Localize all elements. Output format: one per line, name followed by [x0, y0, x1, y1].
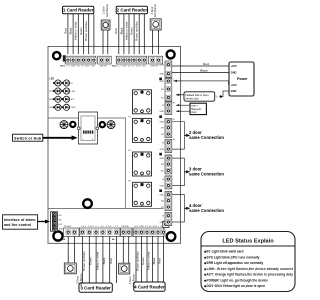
wire exit button 4 GND	[128, 236, 130, 263]
svg-text:GND: GND	[160, 222, 165, 224]
svg-text:1 Card Reader: 1 Card Reader	[63, 8, 94, 13]
wire reader3 pin2	[88, 236, 90, 283]
svg-text:Green: Green	[79, 27, 83, 35]
svg-text:Yellow or white: Yellow or white	[124, 21, 128, 40]
svg-text:GND PB: GND PB	[151, 65, 159, 67]
screw right	[107, 121, 115, 129]
svg-text:Yellow or white: Yellow or white	[95, 251, 99, 270]
door3 lock connector	[165, 155, 172, 174]
svg-text:2 Card Reader: 2 Card Reader	[117, 8, 148, 13]
wire reader1 pin1	[67, 14, 69, 54]
wire reader3 pin5	[109, 236, 111, 283]
mounting hole bottom-left	[53, 231, 62, 240]
svg-text:Brown and blue: Brown and blue	[135, 21, 139, 41]
door1 lock connector	[165, 78, 172, 101]
junction dot	[220, 95, 222, 97]
RJ45 network jack	[77, 112, 98, 144]
svg-text:siren: siren	[191, 111, 197, 114]
wire exit button 4 PB	[122, 236, 124, 263]
capacitor left	[70, 122, 75, 127]
svg-text:GND: GND	[160, 158, 165, 160]
svg-text:electric lock: electric lock	[185, 97, 199, 101]
arrow failsafe to NC terminal	[176, 94, 184, 96]
svg-text:◆ERR Light off,apparatus run n: ◆ERR Light off,apparatus run normally	[203, 261, 263, 265]
svg-text:LINK: LINK	[71, 91, 76, 93]
bracket door 2 connection	[172, 122, 184, 149]
terminal block WG1 (reader 1)	[65, 56, 96, 64]
svg-text:Black: Black	[102, 257, 106, 264]
status LED D3	[53, 88, 61, 94]
wire exit button 3 GND	[73, 236, 75, 263]
door4 sensor connector	[165, 212, 172, 225]
svg-text:GND: GND	[231, 89, 237, 93]
svg-text:GND: GND	[231, 71, 237, 75]
svg-text:GND: GND	[160, 194, 165, 196]
terminal block exit button 2	[149, 56, 163, 64]
svg-text:Red: Red	[203, 62, 209, 66]
wire exit button 1 GND	[102, 30, 104, 54]
controller board outline	[48, 46, 181, 243]
bracket door 3 connection	[172, 158, 184, 185]
wire reader3 pin1	[82, 236, 84, 283]
door2 sensor connector	[165, 140, 172, 153]
svg-text:Black: Black	[152, 257, 156, 264]
wire exit button 3 PB	[67, 236, 69, 263]
wire reader3 pin6	[116, 236, 118, 283]
terminal block exit button 3	[64, 228, 80, 236]
wire reader1 pin2	[72, 14, 74, 54]
failsafe lock note box	[184, 92, 215, 101]
card reader 4 box	[134, 282, 165, 291]
wire reader1 pin3	[77, 14, 79, 54]
wire reader2 pin6	[143, 14, 145, 54]
svg-text:Green: Green	[130, 27, 134, 35]
svg-text:NO: NO	[161, 164, 164, 166]
svg-text:+12V: +12V	[231, 64, 237, 68]
svg-text:◆D0/1~D0/4 Yellow light on,doo: ◆D0/1~D0/4 Yellow light on,door is open	[203, 284, 265, 288]
wire reader2 pin2	[123, 14, 125, 54]
svg-text:Green: Green	[89, 257, 93, 265]
svg-text:same Connection: same Connection	[189, 208, 224, 213]
wire +12V to door1 lock	[174, 81, 230, 85]
card reader 3 box	[79, 283, 112, 292]
terminal block exit button 1	[98, 56, 112, 64]
svg-text:Interface of alarm: Interface of alarm	[4, 218, 36, 222]
svg-text:Exit Button: Exit Button	[131, 273, 135, 286]
card reader 1 box	[63, 6, 94, 14]
wire siren to GND terminal	[176, 110, 190, 112]
svg-text:Brown and blue: Brown and blue	[82, 251, 86, 271]
terminal block exit button 4	[121, 228, 133, 236]
wire red to power	[172, 65, 229, 67]
card reader 2 box	[116, 6, 147, 14]
svg-text:ERR: ERR	[49, 99, 54, 101]
svg-text:NO: NO	[161, 200, 164, 202]
mounting hole top-left	[53, 52, 60, 59]
wire reader3 pin4	[102, 236, 104, 283]
status LED D4	[62, 88, 70, 94]
svg-text:GND: GND	[160, 81, 165, 83]
svg-text:GND: GND	[160, 73, 165, 75]
svg-text:SYS: SYS	[49, 91, 54, 93]
wire reader4 pin6	[163, 236, 165, 282]
status LED D2	[62, 80, 70, 86]
svg-text:Failsafe lock in open: Failsafe lock in open	[185, 93, 209, 97]
mounting hole bottom-middle	[83, 199, 92, 208]
svg-text:◆ACT: Orange light flashes,the: ◆ACT: Orange light flashes,the device is…	[203, 273, 293, 277]
svg-text:IN1: IN1	[59, 215, 62, 217]
interface of alarm box	[3, 215, 38, 229]
svg-text:GND PB: GND PB	[100, 65, 108, 67]
door3 sensor connector	[165, 176, 172, 189]
wire exit button 1 PB	[107, 30, 109, 54]
exit button 3	[64, 263, 76, 274]
wire GND to junction	[222, 91, 229, 97]
wire reader4 pin1	[135, 236, 137, 282]
svg-text:+12V: +12V	[159, 64, 164, 66]
svg-text:IN2: IN2	[59, 220, 62, 222]
svg-text:PB GND: PB GND	[64, 226, 72, 228]
svg-text:GND: GND	[160, 122, 165, 124]
svg-text:LED GND D1 D0 GND +12: LED GND D1 D0 GND +12	[81, 226, 118, 228]
group boundary marks right strip	[159, 78, 162, 81]
svg-text:Yellow or white: Yellow or white	[74, 21, 78, 40]
svg-text:+12 GND D0 D1 GND LED: +12 GND D0 D1 GND LED	[66, 65, 96, 67]
svg-text:Red: Red	[109, 258, 113, 264]
svg-text:PB GND: PB GND	[122, 226, 130, 228]
svg-text:Black: Black	[200, 68, 208, 72]
svg-text:Yellow or white: Yellow or white	[146, 251, 150, 270]
capacitor right	[100, 122, 105, 127]
wire reader3 pin3	[95, 236, 97, 283]
svg-text:4 Card Reader: 4 Card Reader	[134, 285, 165, 290]
svg-text:◆POWER: Light on, go through t: ◆POWER: Light on, go through the device	[203, 278, 268, 282]
exit button 1	[101, 20, 110, 30]
svg-text:Green: Green	[141, 257, 145, 265]
svg-text:LED Status Explain: LED Status Explain	[222, 239, 274, 245]
svg-text:Black: Black	[119, 27, 123, 34]
svg-text:Exit Button: Exit Button	[105, 3, 109, 16]
corner terminal J8	[163, 221, 169, 227]
terminal block WG3 (reader 3)	[80, 228, 121, 236]
wire reader2 pin5	[138, 14, 140, 54]
svg-text:GND: GND	[160, 111, 165, 113]
relay K3	[133, 152, 152, 176]
wire reader4 pin5	[157, 236, 159, 282]
wire exit button 2 GND	[152, 30, 154, 54]
door2 lock connector	[165, 119, 172, 138]
status LED D5	[53, 96, 61, 102]
wire reader2 pin1	[118, 14, 120, 54]
status LED D1	[53, 80, 61, 86]
mounting hole bottom-right	[167, 232, 176, 241]
magnetic siren note box	[190, 103, 206, 114]
svg-text:3 Card Reader: 3 Card Reader	[80, 286, 111, 291]
small connector J10 top-left	[63, 55, 66, 61]
inner board area rectangle	[48, 118, 164, 209]
power input connector	[165, 61, 172, 77]
svg-text:GND: GND	[160, 149, 165, 151]
exit button 2	[150, 19, 161, 30]
svg-text:PWR: PWR	[71, 107, 76, 109]
svg-text:◆SYS Light blink,CPU runs norm: ◆SYS Light blink,CPU runs normally	[203, 255, 260, 259]
switch or hub box	[13, 134, 43, 141]
svg-text:Exit Button: Exit Button	[153, 4, 157, 17]
LED status explain box	[201, 232, 295, 292]
svg-text:and fire control: and fire control	[4, 223, 31, 227]
svg-text:LED: LED	[49, 77, 54, 80]
svg-text:+12V: +12V	[231, 83, 237, 87]
svg-text:Power: Power	[237, 77, 248, 81]
svg-text:same Connection: same Connection	[189, 135, 224, 140]
exit button 4	[119, 263, 130, 274]
relay K1	[133, 90, 152, 114]
svg-text:LED GND D1 D0 GND +12: LED GND D1 D0 GND +12	[134, 226, 162, 228]
svg-text:(-: (-	[216, 96, 218, 99]
wire reader2 pin4	[133, 14, 135, 54]
svg-text:Black: Black	[69, 27, 73, 34]
alarm/fire interface connector	[50, 212, 57, 231]
wire siren to SI terminal	[176, 104, 190, 106]
terminal block WG2 (reader 2)	[116, 56, 147, 64]
status LED D8	[62, 104, 70, 110]
svg-text:NO: NO	[161, 89, 164, 91]
relay K4	[133, 182, 152, 206]
relay K2	[133, 118, 152, 142]
svg-text:Red: Red	[114, 28, 118, 34]
svg-text:+12 GND D0 D1 GND LED: +12 GND D0 D1 GND LED	[117, 65, 147, 67]
svg-text:GND: GND	[59, 229, 64, 231]
terminal block WG4 (reader 4)	[133, 228, 166, 236]
wire reader1 pin6	[93, 14, 95, 54]
arrow alarm box to connector	[38, 221, 46, 223]
svg-text:Red: Red	[63, 28, 67, 34]
door1 sensor connector	[165, 102, 172, 115]
wire black to power	[172, 72, 229, 74]
wire reader4 pin2	[141, 236, 143, 282]
svg-text:◆LINK: Green light flashes,the: ◆LINK: Green light flashes,the device al…	[203, 267, 294, 271]
svg-text:Switch or Hub: Switch or Hub	[14, 136, 42, 140]
mounting hole top-right	[167, 50, 175, 58]
svg-text:RUN: RUN	[49, 107, 54, 109]
svg-text:Exit Button: Exit Button	[79, 273, 83, 286]
svg-text:GND: GND	[160, 185, 165, 187]
wire reader4 pin3	[146, 236, 148, 282]
status LED D7	[53, 104, 61, 110]
svg-text:same Connection: same Connection	[189, 172, 224, 177]
wire reader1 pin5	[88, 14, 90, 54]
svg-text:Brown and blue: Brown and blue	[84, 21, 88, 41]
bracket door 4 connection	[172, 195, 184, 222]
wire exit button 2 PB	[158, 30, 160, 54]
wire reader2 pin3	[128, 14, 130, 54]
svg-text:NO: NO	[161, 128, 164, 130]
svg-text:Brown and blue: Brown and blue	[135, 251, 139, 271]
door4 lock connector	[165, 192, 172, 211]
wire reader1 pin4	[83, 14, 85, 54]
status LED D6	[62, 96, 70, 102]
svg-text:◆IN: Light blink valid card: ◆IN: Light blink valid card	[203, 250, 244, 254]
svg-text:Red: Red	[157, 258, 161, 264]
wire reader4 pin4	[152, 236, 154, 282]
arrow switch to RJ45	[43, 137, 73, 139]
screw left	[60, 121, 68, 129]
power supply box	[229, 62, 254, 96]
